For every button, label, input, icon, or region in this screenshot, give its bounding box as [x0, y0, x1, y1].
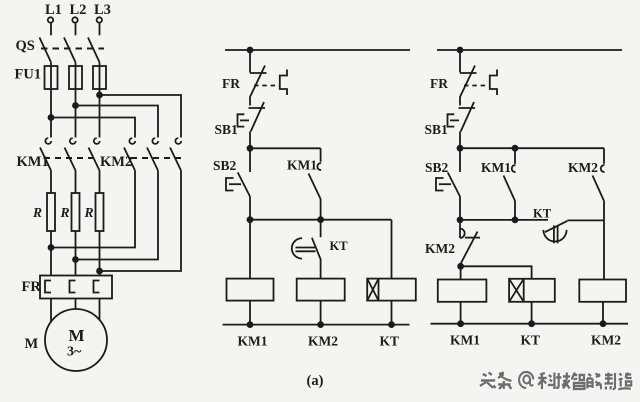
- coil KT (right): [509, 279, 555, 302]
- motor M circle: [45, 309, 107, 371]
- thermal relay FR box: [40, 276, 112, 299]
- wire FR to motor 1: [50, 299, 52, 326]
- svg-text:KM1: KM1: [238, 334, 268, 349]
- wire node to KT coil (right): [461, 266, 532, 279]
- svg-text:KT: KT: [521, 333, 541, 348]
- breaker FR NC contact (right): [460, 66, 477, 98]
- wm char tou: [480, 373, 496, 389]
- contact KM1 aux NO (right): [504, 148, 516, 220]
- wire mid bus: [250, 219, 392, 221]
- svg-text:(a): (a): [307, 373, 324, 389]
- node SB1 bottom (middle): [248, 146, 253, 151]
- wire KT coil to rail (middle): [391, 301, 393, 325]
- node KM1 coil rail (right): [458, 321, 463, 326]
- switch QS pole 2 blade: [64, 38, 76, 63]
- node SB1 bottom (right): [458, 146, 463, 151]
- button SB1 NC contact (right): [459, 102, 476, 132]
- wm char ke: [538, 373, 554, 390]
- wm char zao: [618, 373, 631, 390]
- switch QS pole 3 blade: [88, 38, 100, 63]
- svg-text:FU1: FU1: [15, 67, 42, 83]
- wire node to KM1 coil (right): [460, 263, 462, 280]
- node KM1 branch top (right): [513, 146, 518, 151]
- wire FR dashed link (right): [464, 85, 490, 87]
- wire node to SB2 (middle): [249, 148, 251, 172]
- contactor KM2 linkage dashed: [131, 157, 184, 159]
- button SB2 NO contact (middle): [238, 172, 250, 196]
- wire KM2 branch6 to phase3 junction: [97, 171, 181, 274]
- svg-text:KM2: KM2: [100, 154, 132, 170]
- wire KM1 coil to rail (right): [460, 302, 462, 324]
- node KM1 aux bottom (right): [513, 217, 518, 222]
- wire phase1 contact to resistor: [50, 171, 52, 194]
- svg-text:KM2: KM2: [308, 334, 338, 349]
- wm at-sign: [519, 372, 533, 388]
- wire phase3 resistor to FR: [99, 231, 101, 276]
- wire phase3 contact to resistor: [99, 171, 101, 194]
- node KM2 coil rail (right): [601, 321, 606, 326]
- contact KT NO delayed (right): [543, 221, 567, 243]
- button SB1 actuator (middle): [238, 114, 250, 126]
- svg-text:KM1: KM1: [481, 160, 511, 175]
- svg-text:KM1: KM1: [17, 154, 49, 170]
- button SB2 actuator (right): [436, 178, 451, 191]
- node SB2 bottom (middle): [248, 217, 253, 222]
- wire phase1 QS to fuse: [50, 62, 52, 66]
- wm char zhi2: [605, 373, 615, 390]
- node L2 terminal: [72, 17, 77, 22]
- node KT coil rail (right): [529, 321, 534, 326]
- svg-text:SB2: SB2: [425, 160, 449, 175]
- wire phase2 resistor to FR: [75, 231, 77, 276]
- thermal relay FR heater 2: [70, 281, 76, 293]
- thermal relay FR heater 1: [45, 281, 51, 293]
- svg-text:L2: L2: [70, 2, 87, 18]
- wire rail to FR contact: [249, 50, 251, 73]
- wire node to SB2 (right): [459, 148, 461, 172]
- wire phase1 resistor to FR: [50, 231, 52, 276]
- svg-text:L3: L3: [94, 2, 111, 18]
- node KM2 coil rail: [318, 322, 323, 327]
- fuse FU1 pole1: [45, 66, 58, 89]
- svg-text:QS: QS: [16, 38, 35, 54]
- wire KM2 branch to coil (right): [603, 220, 605, 279]
- wire FR dashed link (middle): [254, 85, 280, 87]
- wire middle bottom rail: [223, 324, 410, 326]
- contactor KM2 main contact 1: [124, 138, 135, 170]
- node KM1 coil rail: [248, 322, 253, 327]
- contactor KM1 linkage dashed: [44, 157, 99, 159]
- wire L3 lead: [99, 23, 101, 36]
- svg-text:KM1: KM1: [287, 158, 317, 173]
- node KT coil rail: [389, 322, 394, 327]
- svg-text:SB2: SB2: [213, 158, 237, 173]
- svg-text:FR: FR: [430, 76, 448, 91]
- wire KM2 branch4 to phase1 junction: [49, 171, 136, 251]
- node right rail tap: [458, 48, 463, 53]
- svg-text:3~: 3~: [67, 345, 82, 360]
- button SB2 actuator (middle): [226, 178, 241, 191]
- button SB1 NC contact (middle): [249, 102, 266, 132]
- svg-text:M: M: [25, 336, 39, 352]
- wm char neng: [587, 374, 602, 390]
- wire SB1 to node (right): [459, 132, 461, 149]
- wire FR to SB1 (right): [459, 98, 461, 106]
- wire FR to motor 3: [99, 299, 101, 326]
- svg-text:R: R: [60, 205, 70, 220]
- wire phase2 contact to resistor: [75, 171, 77, 194]
- button SB2 NO contact (right): [448, 172, 460, 196]
- breaker FR NC contact (middle): [250, 66, 267, 98]
- wire SB1 to node (middle): [249, 132, 251, 149]
- wire right top rail: [437, 49, 622, 51]
- coil KM2 (right): [579, 280, 626, 302]
- wire L1 lead: [50, 23, 52, 36]
- contact KM2 NC interlock (right): [460, 220, 480, 263]
- svg-text:KM2: KM2: [591, 333, 621, 348]
- wire bus to KT coil (middle): [391, 220, 393, 279]
- wire SB2 to node2 (middle): [249, 197, 251, 220]
- node L3 terminal: [97, 17, 102, 22]
- node L1 terminal: [48, 17, 53, 22]
- wire right bottom rail: [431, 323, 629, 325]
- contactor KM2 main contact 3: [170, 138, 181, 170]
- wire KT contact left lead (right): [460, 219, 548, 221]
- coil KM1 (right): [438, 280, 487, 302]
- wire KT contact to KM2 coil (middle): [320, 260, 322, 279]
- wire bus to KT contact (middle): [320, 220, 322, 238]
- wire phase2 tap to KM2 branch5: [73, 103, 158, 138]
- svg-text:FR: FR: [222, 76, 240, 91]
- fuse FU1 pole2: [69, 66, 82, 89]
- contactor KM1 main contact 1: [40, 138, 51, 170]
- wire SB2 to node2 (right): [459, 197, 461, 220]
- thermal element FR (right): [490, 70, 497, 96]
- coil KM1 (middle): [227, 279, 274, 301]
- contactor KM2 main contact 2: [147, 138, 158, 170]
- switch QS pole 1 blade: [40, 38, 52, 63]
- contact KM1 aux NO (middle): [309, 148, 322, 219]
- node middle rail tap: [248, 48, 253, 53]
- wire phase1 fuse to KM1 contact: [50, 89, 52, 138]
- svg-text:FR: FR: [22, 279, 42, 295]
- svg-text:KT: KT: [330, 239, 349, 253]
- node SB2 bottom (right): [458, 217, 463, 222]
- wire KT contact right lead (right): [567, 219, 604, 221]
- wire KM2 coil to rail (right): [602, 302, 604, 324]
- wire KT coil to rail (right): [531, 302, 533, 324]
- svg-text:KM2: KM2: [568, 160, 598, 175]
- wire phase3 fuse to KM1 contact: [99, 89, 101, 138]
- wire to KM1 coil (middle): [249, 220, 251, 279]
- thermal element FR (middle): [280, 70, 287, 96]
- wire KM1 coil to rail (middle): [249, 301, 251, 325]
- svg-text:KT: KT: [533, 207, 552, 221]
- wire KM2 coil to rail (middle): [320, 301, 322, 325]
- button SB1 actuator (right): [448, 114, 460, 126]
- wire parallel branches top (right): [460, 147, 604, 149]
- wm char tiao: [498, 373, 511, 390]
- coil KT (middle): [367, 279, 416, 301]
- contact KT NC delayed (middle): [292, 238, 321, 260]
- contactor KM1 main contact 2: [65, 138, 76, 170]
- fuse FU1 pole3: [93, 66, 106, 89]
- svg-text:KM2: KM2: [425, 241, 455, 256]
- svg-text:R: R: [32, 205, 42, 220]
- wire L2 lead: [75, 23, 77, 36]
- wire KM2 branch5 to phase2 junction: [73, 171, 158, 263]
- wire FR to motor 2: [75, 299, 77, 311]
- wire rail to FR contact (right): [459, 50, 461, 73]
- watermark toutiao text: [480, 372, 632, 390]
- wire phase1 tap to KM2 branch4: [49, 115, 136, 138]
- resistor R phase3: [96, 193, 104, 231]
- wm char ji: [556, 373, 570, 389]
- svg-text:R: R: [84, 205, 94, 220]
- switch QS linkage dashed: [41, 48, 104, 50]
- wire phase3 QS to fuse: [99, 62, 101, 66]
- resistor R phase1: [47, 193, 55, 231]
- wire middle top rail: [225, 49, 410, 51]
- wire phase3 tap to KM2 branch6: [97, 93, 181, 138]
- wm char zhi: [572, 373, 585, 390]
- svg-text:SB1: SB1: [425, 122, 449, 137]
- svg-text:SB1: SB1: [215, 122, 239, 137]
- svg-text:L1: L1: [45, 2, 62, 18]
- thermal relay FR heater 3: [94, 281, 100, 293]
- svg-text:M: M: [69, 326, 85, 345]
- node KM1 aux bottom (middle): [318, 217, 323, 222]
- svg-text:KT: KT: [380, 334, 400, 349]
- wire phase2 fuse to KM1 contact: [75, 89, 77, 138]
- resistor R phase2: [72, 193, 80, 231]
- svg-text:KM1: KM1: [450, 333, 480, 348]
- contactor KM1 main contact 3: [89, 138, 100, 170]
- wire phase2 QS to fuse: [75, 62, 77, 66]
- wire parallel branch top (middle): [250, 147, 321, 149]
- contact KM2 aux NO (right): [593, 148, 605, 220]
- wire FR to SB1 (middle): [249, 98, 251, 106]
- node KM2 NC bottom (right): [458, 264, 463, 269]
- coil KM2 (middle): [297, 279, 345, 301]
